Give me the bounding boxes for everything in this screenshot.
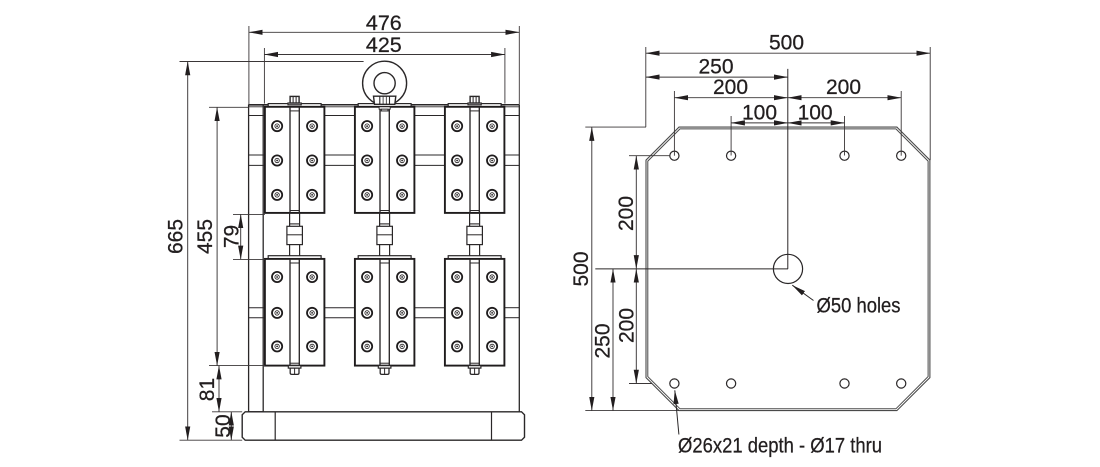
top beam upper line bbox=[249, 104, 520, 106]
dim 476 bbox=[249, 31, 519, 33]
magnet block L3 center channel bbox=[469, 259, 471, 366]
svg-text:200: 200 bbox=[826, 76, 861, 99]
plan dim 250 top bbox=[646, 76, 788, 78]
top beam bottom line segments bbox=[249, 115, 265, 117]
plan dim 200 lower-left bbox=[635, 269, 637, 384]
svg-text:455: 455 bbox=[194, 219, 217, 254]
plan dim 100 left extension line bbox=[730, 116, 732, 156]
label O26 leader bbox=[675, 390, 679, 434]
plan dim 200 top-left extension line bbox=[673, 91, 675, 156]
svg-text:665: 665 bbox=[165, 219, 188, 254]
plan plate outline outer bbox=[646, 127, 930, 411]
magnet block L1 body bbox=[265, 259, 325, 366]
magnet block L1 screws bbox=[272, 272, 282, 282]
plan dim 100 right extension line bbox=[844, 116, 846, 156]
dim 455 bbox=[216, 107, 218, 365]
frame left side plate bbox=[249, 105, 264, 412]
magnet block L1 cap plate bbox=[268, 256, 321, 259]
svg-text:Ø50 holes: Ø50 holes bbox=[817, 294, 901, 317]
magnet block U2 body bbox=[355, 107, 415, 213]
dim 81 bbox=[218, 366, 220, 412]
plan center hole O50 bbox=[773, 254, 802, 283]
svg-text:200: 200 bbox=[713, 76, 748, 99]
plan dim 200 upper-left extension line bbox=[629, 155, 670, 157]
magnet block U2 cap plate bbox=[358, 104, 411, 107]
magnet block U1 body bbox=[265, 107, 325, 213]
plan dim 200 upper-left bbox=[635, 156, 637, 269]
eye bolt collar nut bbox=[374, 96, 396, 104]
magnet block U2 center channel bbox=[379, 107, 381, 213]
eye bolt ring outer bbox=[363, 61, 407, 105]
plan dim 200 lower-left extension line bbox=[629, 383, 652, 385]
dim 79 bbox=[240, 214, 242, 259]
dim 665 extension lines bbox=[180, 61, 364, 63]
svg-text:500: 500 bbox=[570, 251, 593, 286]
magnet block U1 center channel bbox=[289, 107, 291, 213]
plan small holes bottom row bbox=[670, 379, 679, 388]
plan small holes top row bbox=[670, 151, 679, 160]
svg-text:500: 500 bbox=[769, 31, 804, 54]
svg-text:100: 100 bbox=[742, 101, 777, 124]
plan dim 250 left bbox=[612, 269, 614, 411]
magnet block L1 center channel bbox=[289, 259, 291, 366]
coupling rods between block rows bbox=[289, 213, 291, 256]
dim 425 bbox=[264, 54, 505, 56]
upper row rails bbox=[249, 154, 265, 156]
magnet block L2 screws bbox=[362, 272, 372, 282]
magnet block L3 body bbox=[445, 259, 505, 366]
dim 79 extension lines bbox=[233, 213, 265, 215]
top hex bolt on block U1 bbox=[288, 103, 301, 105]
label O50 holes leader bbox=[792, 285, 813, 300]
svg-text:50: 50 bbox=[212, 414, 235, 437]
plan dim 500 top extension lines bbox=[645, 47, 647, 127]
frame left plate step line bbox=[249, 115, 264, 117]
dim 425 extension lines bbox=[263, 48, 265, 104]
magnet block L3 cap plate bbox=[448, 256, 501, 259]
svg-text:Ø26x21 depth - Ø17 thru: Ø26x21 depth - Ø17 thru bbox=[678, 434, 882, 457]
svg-text:79: 79 bbox=[221, 225, 244, 248]
magnet block L2 body bbox=[355, 259, 415, 366]
magnet block L2 center channel bbox=[379, 259, 381, 366]
svg-text:81: 81 bbox=[196, 378, 219, 401]
magnet block U3 body bbox=[445, 107, 505, 213]
magnet block U2 screws bbox=[362, 121, 372, 131]
dim 476 extension lines bbox=[248, 26, 250, 105]
dim 50 bbox=[230, 412, 232, 440]
eye bolt shank thread lines bbox=[379, 96, 381, 104]
magnet block U1 screws bbox=[272, 121, 282, 131]
plan dim 500 left bbox=[591, 127, 593, 411]
dim 81 extension line at base top bbox=[212, 411, 242, 413]
magnet block U3 cap plate bbox=[448, 104, 501, 107]
svg-text:476: 476 bbox=[366, 11, 402, 35]
bottom bolts under lower blocks bbox=[288, 366, 301, 369]
magnet block L2 cap plate bbox=[358, 256, 411, 259]
plan dim 200 top-right bbox=[788, 97, 901, 99]
svg-text:425: 425 bbox=[366, 33, 402, 57]
base plate chamfer edge lines bbox=[274, 412, 276, 440]
dim 665 bbox=[187, 62, 189, 441]
svg-text:200: 200 bbox=[615, 308, 638, 343]
eye bolt shank flange below cap bbox=[379, 107, 390, 109]
dim 455 extension lines bbox=[209, 106, 249, 108]
plan plate outline inner bbox=[648, 129, 928, 409]
magnet block U3 center channel bbox=[469, 107, 471, 213]
eye bolt ring inner bbox=[374, 73, 395, 94]
base plate bbox=[242, 412, 524, 440]
svg-text:250: 250 bbox=[698, 56, 733, 79]
svg-text:200: 200 bbox=[615, 196, 638, 231]
plan center vertical line bbox=[787, 69, 789, 269]
top hex bolt on block U3 bbox=[468, 103, 481, 105]
magnet block U3 screws bbox=[452, 121, 462, 131]
plan dim 500 left extension lines bbox=[585, 126, 646, 128]
plan center horizontal line bbox=[595, 268, 788, 270]
magnet block U1 cap plate bbox=[268, 104, 321, 107]
plan dim 100 right bbox=[788, 122, 845, 124]
plan dim 200 top-left bbox=[674, 97, 787, 99]
svg-text:250: 250 bbox=[592, 323, 615, 358]
plan dim 500 top bbox=[646, 52, 930, 54]
magnet block L3 screws bbox=[452, 272, 462, 282]
frame right side edge bbox=[518, 105, 520, 412]
lower row rails bbox=[249, 307, 265, 309]
top beam second line bbox=[249, 106, 520, 108]
plan dim 200 top-right extension line bbox=[900, 91, 902, 156]
svg-text:100: 100 bbox=[798, 101, 833, 124]
plan dim 100 left bbox=[731, 122, 788, 124]
